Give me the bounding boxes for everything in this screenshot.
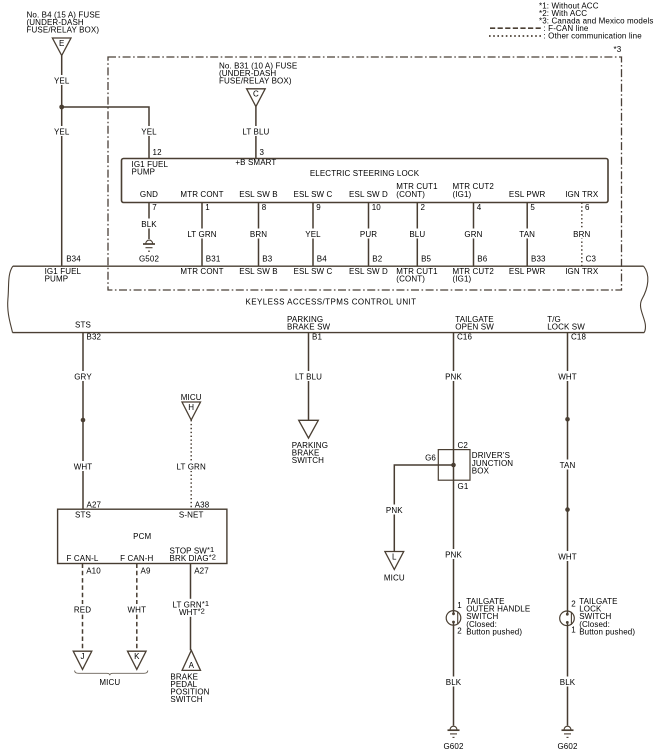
svg-text:PCM: PCM bbox=[133, 532, 151, 541]
LT GRN label bbox=[185, 229, 219, 239]
svg-text:12: 12 bbox=[153, 148, 163, 157]
parking brake switch triangle bbox=[299, 420, 319, 438]
wire from fuse E down to keyless unit (YEL) bbox=[61, 56, 63, 267]
svg-text:A: A bbox=[189, 661, 195, 670]
wire B1 to parking brake switch (LT BLU) bbox=[308, 333, 310, 421]
PNK label branch bbox=[383, 505, 405, 516]
ground G602 symbol (lock switch) bbox=[557, 726, 577, 751]
MICU H triangle bbox=[182, 402, 201, 420]
svg-text:MTR CUT1(CONT): MTR CUT1(CONT) bbox=[396, 267, 438, 284]
wire MTR CUT2 pin4 to B6 (GRN) bbox=[473, 203, 475, 267]
svg-text:BLK: BLK bbox=[141, 220, 157, 229]
svg-text:L: L bbox=[392, 552, 397, 561]
tailgate outer handle switch symbol bbox=[446, 611, 461, 626]
PNK label lower bbox=[443, 549, 465, 560]
svg-text:MICU: MICU bbox=[384, 573, 405, 582]
svg-text:C3: C3 bbox=[586, 254, 597, 263]
svg-text:H: H bbox=[188, 403, 194, 412]
BLK label bbox=[557, 677, 579, 688]
ground G602 symbol (outer handle) bbox=[443, 726, 463, 751]
BRN label bbox=[248, 229, 270, 239]
svg-text:MTR CUT2(IG1): MTR CUT2(IG1) bbox=[453, 267, 495, 284]
svg-text:ESL SW C: ESL SW C bbox=[294, 267, 333, 276]
svg-text:MTR CUT2(IG1): MTR CUT2(IG1) bbox=[453, 182, 495, 199]
YEL label upper bbox=[51, 75, 73, 86]
svg-text:ELECTRIC STEERING LOCK: ELECTRIC STEERING LOCK bbox=[310, 169, 420, 178]
svg-text:B31: B31 bbox=[206, 254, 221, 263]
ELECTRIC STEERING LOCK unit box U1 bbox=[122, 159, 609, 203]
svg-text:C18: C18 bbox=[571, 333, 586, 342]
svg-text:TAILGATEOUTER HANDLESWITCH(Clo: TAILGATEOUTER HANDLESWITCH(Closed:Button… bbox=[466, 597, 530, 637]
wire lock switch to ground (BLK) bbox=[567, 626, 569, 726]
LT BLU label bbox=[239, 126, 273, 137]
svg-text:B3: B3 bbox=[262, 254, 272, 263]
wire ESL SW B pin8 to B3 (BRN) bbox=[258, 203, 260, 267]
svg-text:LT GRN: LT GRN bbox=[177, 463, 206, 472]
svg-text:G6: G6 bbox=[425, 453, 436, 462]
svg-text:C16: C16 bbox=[457, 333, 472, 342]
svg-text:IG1 FUELPUMP: IG1 FUELPUMP bbox=[45, 267, 82, 284]
svg-text:2: 2 bbox=[421, 203, 426, 212]
wire C16 to tailgate outer handle switch (PNK) bbox=[453, 333, 455, 611]
svg-text:PNK: PNK bbox=[445, 373, 462, 382]
svg-text:1: 1 bbox=[205, 203, 210, 212]
svg-text:A38: A38 bbox=[195, 500, 210, 509]
YEL label bbox=[302, 229, 324, 239]
svg-text:BLK: BLK bbox=[446, 678, 462, 687]
svg-text:B5: B5 bbox=[421, 254, 431, 263]
triangle J (MICU) bbox=[73, 651, 92, 669]
svg-text:F CAN-L: F CAN-L bbox=[67, 554, 99, 563]
wire IGN TRX pin6 to C3 (BRN, communication line, dotted) bbox=[581, 203, 583, 267]
svg-text:E: E bbox=[59, 39, 64, 48]
svg-text:ESL SW D: ESL SW D bbox=[349, 190, 388, 199]
wire STS B32 to PCM A27 bbox=[82, 333, 84, 510]
BLK label bbox=[138, 219, 160, 229]
svg-text:PUR: PUR bbox=[360, 230, 377, 239]
svg-text:GRN: GRN bbox=[464, 230, 482, 239]
svg-text:A27: A27 bbox=[87, 500, 102, 509]
PCM box bbox=[58, 509, 227, 563]
splice node WHT/TAN bbox=[565, 417, 570, 422]
splice node TAN/WHT bbox=[565, 507, 570, 512]
tailgate lock switch symbol bbox=[560, 611, 575, 626]
svg-text:B33: B33 bbox=[531, 254, 546, 263]
driver's junction box bbox=[438, 450, 513, 481]
svg-text:4: 4 bbox=[477, 203, 482, 212]
LT GRN label bbox=[174, 461, 208, 472]
BRN label bbox=[571, 229, 593, 239]
svg-text:B6: B6 bbox=[477, 254, 487, 263]
svg-text:TAN: TAN bbox=[560, 461, 576, 470]
svg-text:PARKINGBRAKE SW: PARKINGBRAKE SW bbox=[287, 315, 331, 332]
svg-text:C2: C2 bbox=[458, 441, 469, 450]
legend F-CAN line sample bbox=[490, 24, 589, 33]
svg-text:KEYLESS ACCESS/TPMS CONTROL UN: KEYLESS ACCESS/TPMS CONTROL UNIT bbox=[246, 298, 417, 307]
svg-text:WHT: WHT bbox=[558, 553, 577, 562]
wire GND pin7 BLK to ground bbox=[148, 203, 150, 240]
svg-text:BLK: BLK bbox=[560, 678, 576, 687]
fuse C triangle symbol bbox=[247, 89, 266, 107]
svg-text:No. B31 (10 A) FUSE(UNDER-DASH: No. B31 (10 A) FUSE(UNDER-DASHFUSE/RELAY… bbox=[219, 62, 297, 86]
GRY label bbox=[72, 371, 94, 382]
wire A27 to brake pedal position switch bbox=[190, 564, 192, 651]
svg-text:C: C bbox=[253, 90, 259, 99]
svg-text:B32: B32 bbox=[87, 333, 102, 342]
svg-text:A10: A10 bbox=[86, 567, 101, 576]
svg-text:: Other communication line: : Other communication line bbox=[544, 32, 643, 41]
svg-text:B34: B34 bbox=[66, 254, 81, 263]
svg-text:*3: *3 bbox=[614, 45, 622, 54]
fuse E triangle symbol bbox=[52, 38, 71, 56]
svg-text:ESL SW B: ESL SW B bbox=[239, 190, 277, 199]
dash-dot border *3 (Canada/Mexico region) bbox=[108, 45, 622, 290]
ground G502 symbol bbox=[139, 240, 159, 263]
RED label bbox=[72, 604, 94, 615]
svg-text:MTR CONT: MTR CONT bbox=[180, 190, 223, 199]
svg-text:DRIVER’SJUNCTIONBOX: DRIVER’SJUNCTIONBOX bbox=[472, 451, 514, 475]
legend other communication line sample bbox=[489, 32, 642, 41]
svg-text:GRY: GRY bbox=[74, 373, 92, 382]
svg-text:5: 5 bbox=[530, 203, 535, 212]
triangle K (MICU) bbox=[128, 651, 147, 669]
WHT label lower bbox=[557, 551, 579, 562]
svg-text:STS: STS bbox=[75, 510, 91, 519]
YEL label on branch bbox=[138, 126, 160, 137]
svg-text:YEL: YEL bbox=[54, 128, 70, 137]
F-CAN dashed wire A9 to K bbox=[136, 564, 138, 652]
svg-text:2: 2 bbox=[571, 599, 576, 608]
svg-text:IGN TRX: IGN TRX bbox=[565, 267, 599, 276]
MICU bracket under J and K bbox=[75, 671, 148, 687]
PNK label upper bbox=[443, 371, 465, 382]
svg-text:B1: B1 bbox=[312, 333, 322, 342]
WHT label bbox=[126, 604, 148, 615]
wire MTR CONT pin1 to B31 (LT GRN) bbox=[201, 203, 203, 267]
svg-text:WHT: WHT bbox=[558, 373, 577, 382]
svg-text:B2: B2 bbox=[372, 254, 382, 263]
svg-text:T/GLOCK SW: T/GLOCK SW bbox=[547, 315, 585, 332]
svg-text:ESL PWR: ESL PWR bbox=[509, 190, 546, 199]
svg-text:K: K bbox=[134, 652, 140, 661]
junction node on YEL wire bbox=[59, 105, 64, 110]
svg-text:RED: RED bbox=[74, 606, 91, 615]
KEYLESS ACCESS/TPMS CONTROL UNIT box bbox=[8, 266, 648, 332]
svg-text:MTR CONT: MTR CONT bbox=[180, 267, 223, 276]
svg-text:G502: G502 bbox=[139, 254, 159, 263]
svg-text:G602: G602 bbox=[443, 742, 463, 751]
svg-text:10: 10 bbox=[372, 203, 382, 212]
svg-text:YEL: YEL bbox=[141, 128, 157, 137]
svg-text:A9: A9 bbox=[141, 567, 151, 576]
svg-text:PNK: PNK bbox=[445, 551, 462, 560]
svg-text:IG1 FUELPUMP: IG1 FUELPUMP bbox=[132, 160, 169, 177]
svg-text:BRAKEPEDALPOSITIONSWITCH: BRAKEPEDALPOSITIONSWITCH bbox=[170, 672, 209, 704]
svg-text:STOP SW*1BRK DIAG*2: STOP SW*1BRK DIAG*2 bbox=[170, 545, 217, 563]
svg-text:YEL: YEL bbox=[305, 230, 321, 239]
triangle A (brake pedal position switch) bbox=[182, 650, 200, 670]
svg-text:MTR CUT1(CONT): MTR CUT1(CONT) bbox=[396, 182, 438, 199]
BLK label bbox=[443, 677, 465, 688]
svg-text:STS: STS bbox=[75, 321, 91, 330]
WHT label upper bbox=[557, 371, 579, 382]
svg-text:BRN: BRN bbox=[573, 230, 590, 239]
svg-text:WHT: WHT bbox=[74, 463, 93, 472]
svg-text:ESL SW B: ESL SW B bbox=[239, 267, 277, 276]
svg-text:BLU: BLU bbox=[409, 230, 425, 239]
svg-text:7: 7 bbox=[152, 203, 157, 212]
wire branch to pin 12 bbox=[62, 107, 149, 159]
wire MTR CUT1 pin2 to B5 (BLU) bbox=[416, 203, 418, 267]
svg-text:F CAN-H: F CAN-H bbox=[120, 554, 153, 563]
splice node on STS wire bbox=[81, 418, 86, 423]
svg-text:MICU: MICU bbox=[181, 393, 202, 402]
svg-text:MICU: MICU bbox=[99, 678, 120, 687]
dotted communication wire H to S-NET bbox=[190, 420, 192, 509]
svg-text:9: 9 bbox=[316, 203, 321, 212]
svg-text:+B SMART: +B SMART bbox=[235, 158, 276, 167]
svg-text:WHT: WHT bbox=[128, 606, 147, 615]
svg-text:B4: B4 bbox=[317, 254, 327, 263]
svg-text:ESL PWR: ESL PWR bbox=[509, 267, 546, 276]
LT GRN*1 WHT*2 label bbox=[170, 599, 212, 617]
svg-text:3: 3 bbox=[260, 148, 265, 157]
TAN label bbox=[516, 229, 538, 239]
svg-text:G602: G602 bbox=[557, 742, 577, 751]
svg-text:TAILGATEOPEN SW: TAILGATEOPEN SW bbox=[455, 315, 494, 332]
wire fuse C to pin 3 (LT BLU) bbox=[255, 107, 257, 159]
svg-text:IGN TRX: IGN TRX bbox=[565, 190, 599, 199]
svg-text:8: 8 bbox=[262, 203, 267, 212]
svg-text:No. B4 (15 A) FUSE(UNDER-DASHF: No. B4 (15 A) FUSE(UNDER-DASHFUSE/RELAY … bbox=[27, 10, 101, 34]
junction node in driver's junction box bbox=[451, 463, 456, 468]
svg-text:6: 6 bbox=[585, 203, 590, 212]
svg-text:LT BLU: LT BLU bbox=[295, 373, 322, 382]
wire ESL SW C pin9 to B4 (YEL) bbox=[312, 203, 314, 267]
svg-text:1: 1 bbox=[457, 601, 462, 610]
svg-text:PARKINGBRAKESWITCH: PARKINGBRAKESWITCH bbox=[292, 441, 328, 465]
wire ESL SW D pin10 to B2 (PUR) bbox=[368, 203, 370, 267]
WHT label bbox=[72, 461, 94, 472]
svg-text:BRN: BRN bbox=[250, 230, 267, 239]
wire C18 to tailgate lock switch (WHT) bbox=[567, 333, 569, 611]
svg-text:J: J bbox=[80, 652, 84, 661]
LT BLU label bbox=[292, 371, 326, 382]
PUR label bbox=[358, 229, 380, 239]
TAN label bbox=[557, 460, 579, 471]
wire outer handle switch to ground (BLK) bbox=[453, 625, 455, 725]
svg-text:YEL: YEL bbox=[54, 77, 70, 86]
svg-text:TAILGATELOCKSWITCH(Closed:Butt: TAILGATELOCKSWITCH(Closed:Button pushed) bbox=[579, 597, 635, 637]
svg-text:2: 2 bbox=[457, 626, 462, 635]
triangle L (MICU) bbox=[385, 552, 404, 570]
svg-text:1: 1 bbox=[571, 626, 576, 635]
F-CAN dashed wire A10 to J bbox=[82, 564, 84, 652]
svg-text:PNK: PNK bbox=[386, 506, 403, 515]
YEL label lower left bbox=[51, 126, 73, 137]
svg-text:LT BLU: LT BLU bbox=[242, 128, 269, 137]
svg-text:ESL SW C: ESL SW C bbox=[294, 190, 333, 199]
BLU label bbox=[406, 229, 428, 239]
GRN label bbox=[463, 229, 485, 239]
branch wire G6 to MICU L (PNK) bbox=[394, 465, 453, 552]
svg-text:S-NET: S-NET bbox=[179, 510, 204, 519]
svg-text:TAN: TAN bbox=[519, 230, 535, 239]
svg-text:GND: GND bbox=[140, 190, 158, 199]
svg-text:LT GRN: LT GRN bbox=[187, 230, 216, 239]
svg-text:G1: G1 bbox=[458, 482, 469, 491]
svg-text:ESL SW D: ESL SW D bbox=[349, 267, 388, 276]
wire ESL PWR pin5 to B33 (TAN) bbox=[526, 203, 528, 267]
svg-text:A27: A27 bbox=[194, 567, 209, 576]
